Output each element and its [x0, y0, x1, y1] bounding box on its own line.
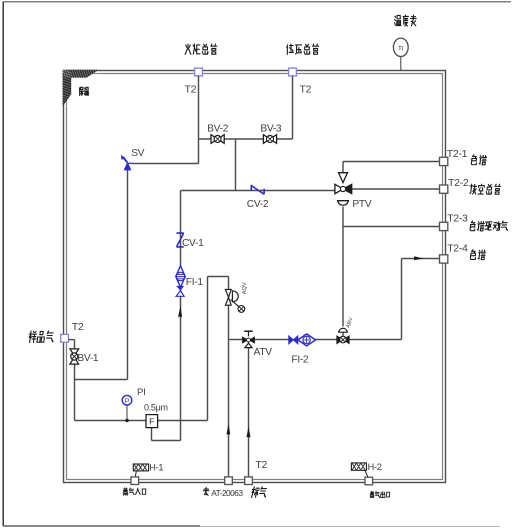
svg-text:ATV: ATV — [254, 347, 273, 358]
flow arrow up (FI-1 riser) — [178, 306, 182, 317]
svg-text:T2: T2 — [300, 84, 312, 96]
svg-text:H-1: H-1 — [149, 462, 163, 472]
valve ATV — [242, 331, 255, 347]
svg-text:T2-4: T2-4 — [447, 243, 468, 255]
label T2-2 fangkong zongguan (vent header) — [448, 177, 501, 194]
wire: T2-3 line — [343, 226, 440, 228]
wire: LP node down — [292, 76, 294, 139]
wire: node to BV-1 — [68, 339, 74, 341]
svg-text:PTV: PTV — [352, 199, 371, 210]
wire: riser to regulator — [207, 277, 209, 421]
node T2-4 — [440, 255, 448, 263]
label zhengqi chukou — [370, 491, 390, 497]
label biaoqi — [250, 487, 268, 498]
filter F 0.5um — [146, 415, 158, 428]
flow indicator FI-2 — [289, 334, 316, 346]
node steam outlet — [365, 477, 373, 485]
svg-text:P: P — [125, 398, 130, 405]
wire: main line to filter — [75, 420, 208, 422]
page frame top — [3, 1, 511, 3]
node sample T2 — [61, 334, 69, 342]
wire: PTV right to T2-2 — [352, 188, 440, 190]
enclosure outer wall — [64, 71, 446, 483]
three-way valve PTV — [335, 173, 352, 206]
svg-text:TI: TI — [398, 45, 404, 52]
page frame bottom — [3, 525, 200, 527]
check valve CV-2 — [251, 185, 264, 195]
svg-text:T2-3: T2-3 — [447, 213, 468, 225]
node T2-2 — [440, 185, 448, 193]
node T2-3 — [440, 222, 448, 230]
svg-text:BV-1: BV-1 — [77, 353, 99, 364]
svg-text:T2-2: T2-2 — [448, 177, 469, 189]
wire: TI stem — [400, 57, 402, 71]
svg-text:CV-2: CV-2 — [247, 199, 269, 210]
wire: sample riser — [180, 191, 182, 441]
svg-text:H-2: H-2 — [368, 462, 382, 472]
flow indicator FI-1 (rotameter) — [176, 266, 185, 297]
enclosure inner wall — [67, 74, 443, 480]
svg-text:FI-1: FI-1 — [186, 277, 204, 288]
wire: filter bottom loop horiz — [152, 440, 181, 442]
node flare header T2 — [195, 68, 203, 76]
label diya zongguan (LP header) — [287, 44, 319, 54]
regulator AQV — [225, 282, 248, 312]
flow arrow right (T2-4) — [414, 256, 423, 260]
label T2-3 sepu qudongqi (carrier gas) — [447, 213, 508, 231]
svg-text:0.5μm: 0.5μm — [144, 403, 168, 413]
svg-text:BV-2: BV-2 — [207, 124, 229, 135]
svg-text:T2: T2 — [185, 84, 197, 96]
label T2-4 sepu (chromatograph) — [447, 243, 486, 260]
node to AT-20063 — [225, 477, 233, 485]
svg-text:T2-1: T2-1 — [447, 148, 468, 160]
wire: T2-4 feed — [402, 258, 441, 260]
flow arrow up (AT-20063 line) — [227, 424, 231, 435]
svg-text:AT-20063: AT-20063 — [211, 488, 243, 498]
svg-text:BV-3: BV-3 — [260, 124, 282, 135]
label zhengqi rukou — [123, 488, 146, 495]
wire: mid junction down to CV-2 line — [235, 139, 237, 191]
temperature gauge label wendubiao — [395, 15, 417, 26]
node steam inlet — [131, 477, 139, 485]
check valve CV-1 — [177, 233, 184, 247]
valve BV-1 — [70, 349, 79, 364]
valve ABV — [337, 317, 355, 344]
svg-text:F: F — [149, 417, 154, 427]
wire: SV branch — [132, 163, 198, 165]
label baowen (insulation) — [79, 87, 88, 95]
valve BV-3 — [263, 135, 276, 144]
valve SV — [121, 155, 133, 171]
wire: flare node down — [198, 76, 200, 164]
label huoju zongguan (flare header) — [185, 44, 217, 54]
wire: filter bottom loop vert — [151, 428, 153, 441]
node LP header T2 — [289, 68, 297, 76]
pressure gauge PI — [126, 405, 128, 421]
valve BV-2 — [211, 135, 224, 144]
wire: SV drop — [127, 170, 129, 380]
label qu AT-20063 — [204, 488, 209, 496]
node T2-1 — [440, 157, 448, 165]
svg-text:SV: SV — [131, 148, 144, 159]
heater H-2 — [351, 463, 366, 470]
insulation hatch — [63, 70, 98, 105]
wire: BV-2/BV-3 header line — [199, 138, 293, 140]
svg-text:CV-1: CV-1 — [182, 238, 204, 249]
svg-text:PI: PI — [137, 387, 145, 398]
temperature gauge TI circle — [393, 38, 408, 56]
wire: ATV bottom to biaoqi node — [248, 340, 250, 481]
svg-text:AQV: AQV — [242, 282, 248, 294]
label yangpinqi (sample gas) — [28, 331, 54, 343]
wire: SV drop to BV-1 line — [75, 379, 128, 381]
node biaoqi (cal gas) — [245, 477, 253, 485]
wire: PTV bottom drop — [342, 207, 344, 327]
svg-text:FI-2: FI-2 — [291, 354, 309, 365]
page frame left — [2, 2, 4, 527]
wire: CV-2 line — [181, 190, 335, 192]
wire: PTV top to T2-1 — [342, 162, 344, 173]
flow arrow up (biaoqi line) — [247, 426, 251, 437]
svg-text:T2: T2 — [72, 321, 84, 333]
svg-text:T2: T2 — [255, 459, 267, 471]
heater H-1 — [133, 464, 148, 471]
label T2-1 sepu (chromatograph) — [447, 148, 487, 165]
wire: ATV header — [229, 339, 402, 341]
